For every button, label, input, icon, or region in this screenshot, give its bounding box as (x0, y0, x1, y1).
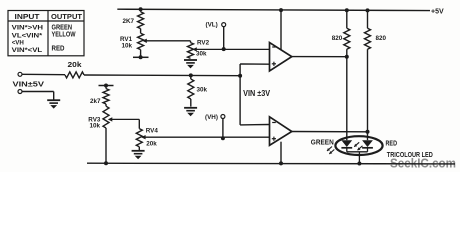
svg-text:VIN±5V: VIN±5V (13, 80, 45, 89)
svg-text:30k: 30k (197, 86, 208, 93)
svg-text:RED: RED (386, 140, 398, 147)
svg-text:2k7: 2k7 (90, 98, 101, 105)
svg-text:YELLOW: YELLOW (52, 30, 76, 39)
svg-text:VL<VIN*: VL<VIN* (12, 32, 43, 39)
svg-text:RV2: RV2 (197, 39, 210, 46)
svg-text:(VL): (VL) (206, 21, 218, 28)
svg-text:RV4: RV4 (146, 128, 159, 135)
svg-text:20k: 20k (68, 62, 82, 69)
svg-text:VIN ±3V: VIN ±3V (243, 89, 271, 98)
svg-text:30k: 30k (196, 50, 207, 57)
svg-text:10k: 10k (90, 123, 101, 130)
svg-text:INPUT: INPUT (15, 12, 41, 21)
svg-text:<VH: <VH (12, 39, 24, 46)
svg-text:VIN*<VL: VIN*<VL (12, 47, 43, 54)
svg-text:2K7: 2K7 (123, 18, 135, 25)
svg-text:(VH): (VH) (205, 114, 218, 121)
svg-text:20k: 20k (146, 141, 157, 148)
svg-text:+5V: +5V (431, 8, 444, 15)
svg-text:10k: 10k (122, 42, 133, 49)
svg-text:GREEN: GREEN (311, 139, 334, 146)
svg-text:VIN*>VH: VIN*>VH (12, 25, 43, 32)
svg-text:RED: RED (52, 44, 66, 53)
svg-text:820: 820 (332, 35, 343, 42)
svg-text:SeekIC.com: SeekIC.com (390, 155, 456, 170)
svg-text:OUTPUT: OUTPUT (51, 12, 83, 21)
svg-text:820: 820 (376, 35, 387, 42)
